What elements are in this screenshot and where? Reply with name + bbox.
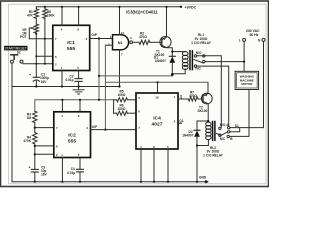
relay RL2 pole contact mid (228, 131, 230, 133)
wire IC4 pin1 Q to R7 (178, 98, 188, 100)
wire N terminal drop (263, 42, 265, 128)
transistor T2 base bar (202, 95, 204, 103)
switch S2 actuator (11, 55, 18, 59)
node rail pin1 (61, 181, 63, 183)
svg-text:100Ω: 100Ω (118, 107, 126, 111)
resistor R6 100K (43, 9, 47, 19)
svg-text:1M: 1M (27, 116, 32, 120)
node pin6 tap (35, 55, 37, 57)
wire D2 anode down (196, 137, 198, 182)
svg-text:S2: S2 (17, 50, 21, 54)
relay RL1 core bars (190, 51, 192, 70)
svg-text:1N4007: 1N4007 (182, 134, 193, 138)
node rail C3 (34, 181, 36, 183)
wire R2 to T1 base (150, 41, 162, 43)
svg-text:L: L (239, 38, 241, 42)
wire R7 to T2 base (198, 98, 203, 100)
wire R1 to VR (35, 18, 37, 24)
wire O/P junction drop (98, 39, 100, 100)
resistor R1 47K (34, 9, 38, 19)
node C3 pin2 (34, 153, 36, 155)
ground symbol under C2 (73, 90, 84, 94)
wire IC4 pin16 stub (157, 82, 159, 93)
node rail N1 pin14 (118, 6, 120, 8)
wire IC2 pin4 stub (61, 100, 63, 112)
wire IC1 pin8 stub (78, 7, 80, 26)
wire RL2 bottom pole to motor (229, 90, 249, 137)
node rail pin8 (78, 6, 80, 8)
switch S2 right contact circle (20, 60, 23, 63)
relay RL1 pole contact upper (203, 55, 205, 57)
wire IC4 bottom pin4 (140, 149, 142, 182)
transistor T1 collector lead (162, 45, 172, 51)
capacitor C3 10u top plate (31, 168, 38, 170)
terminal L circle (243, 38, 246, 41)
diode D2 1N4007 (194, 130, 200, 137)
wire IC1 pin5 stub to C2 (78, 71, 80, 79)
label START/RESET (4, 46, 28, 51)
node pin7 crossing (44, 38, 46, 40)
wire IC1 pin7 (29, 38, 53, 40)
svg-text:O/P: O/P (92, 125, 98, 129)
wire IC1 pin3 output (90, 38, 113, 40)
svg-text:POT: POT (20, 35, 27, 39)
svg-text:IC1: IC1 (67, 40, 75, 46)
relay RL2 armature (216, 132, 227, 136)
IC4 4027 box (136, 93, 178, 149)
wire C1 bottom (35, 81, 37, 86)
wire T1 collector node to RL1 coil top (172, 51, 185, 53)
node pin1 ground (61, 85, 63, 87)
node R4 pin6 (34, 145, 36, 147)
wire IC1 pin6 (36, 55, 53, 57)
node pin2 crossB (44, 63, 46, 65)
relay RL2 fixed N/C contact (219, 134, 221, 136)
wire IC2 pin6 (35, 145, 54, 147)
wire RL2 top pole U-link (230, 128, 240, 132)
resistor R6 100ohm (117, 111, 128, 115)
wire L terminal drop (243, 42, 245, 72)
svg-text:S1: S1 (235, 124, 239, 128)
wire N1 input2 drop to IC2 output (104, 45, 106, 129)
relay RL2 pole contact top (228, 127, 230, 129)
svg-text:MOTOR: MOTOR (241, 82, 253, 86)
svg-text:N/O A: N/O A (220, 123, 229, 127)
svg-text:N1: N1 (118, 41, 123, 45)
resistor R6 100K top stub (44, 7, 46, 9)
svg-text:100Ω: 100Ω (118, 93, 126, 97)
node rail IC4 p4 (140, 181, 142, 183)
svg-text:N/O: N/O (196, 51, 202, 55)
wire ground bus left (12, 86, 120, 88)
svg-text:1N4007: 1N4007 (155, 59, 166, 63)
svg-text:0.01µ: 0.01µ (67, 171, 75, 175)
wire left S2 column down to bottom rail (11, 63, 13, 182)
wire RL1 pole to L line (205, 61, 244, 63)
svg-text:IC3(N1)=CD4011: IC3(N1)=CD4011 (126, 10, 158, 15)
wire C1 column (35, 64, 37, 78)
potentiometer VR wiper arm (29, 28, 33, 39)
svg-text:START/RESET: START/RESET (4, 47, 26, 51)
label motor box (235, 71, 259, 89)
svg-text:+: + (29, 73, 31, 77)
node VR bottom (35, 33, 37, 35)
svg-text:470K: 470K (23, 139, 31, 143)
wire bottom ground rail (12, 181, 206, 183)
node rail R6 (44, 6, 46, 8)
node C2 ground (78, 85, 80, 87)
node busA left (98, 75, 100, 77)
node T1 collector (171, 51, 173, 53)
wire R1 top stub (35, 7, 37, 9)
wire RL1 N/C to RL2 pole (197, 66, 229, 126)
wire D1 anode down (171, 63, 173, 74)
capacitor C1 1000u top plate (33, 76, 39, 78)
svg-text:GND: GND (199, 176, 207, 180)
wire D1 cathode stub (171, 52, 173, 57)
relay RL2 pole contact bottom (227, 135, 229, 137)
relay RL2 core bars (213, 122, 215, 141)
node rail IC4 p8 (153, 181, 155, 183)
node rail IC4 p5 (167, 181, 169, 183)
inner border frame (9, 4, 267, 184)
node IC2 pin4 supply (61, 99, 63, 101)
capacitor C4 bottom plate (77, 171, 84, 173)
node N1 pin7 gnd (118, 85, 120, 87)
svg-text:IC2: IC2 (68, 133, 76, 139)
node rail C4 (79, 181, 81, 183)
relay RL1 coil (182, 52, 188, 70)
svg-text:+9VDC: +9VDC (185, 6, 197, 10)
wire R4 bottom column (34, 144, 36, 170)
wire IC1 pin2 (23, 63, 53, 65)
resistor R3 1M (33, 111, 37, 122)
relay RL1 fixed N/C contact (194, 65, 196, 67)
wire IC2 pin2 (35, 153, 54, 155)
wire C4 bottom (79, 172, 81, 182)
wire R3 to R4 (34, 123, 36, 133)
resistor R7 470ohm (188, 97, 198, 101)
svg-text:N/C: N/C (220, 137, 226, 141)
svg-text:14: 14 (121, 31, 125, 35)
svg-text:0.01µ: 0.01µ (65, 78, 73, 82)
svg-text:16V: 16V (41, 173, 48, 177)
svg-text:47K: 47K (27, 14, 34, 18)
wire IC1 pin4 stub (61, 7, 63, 26)
wire N1 input2 (105, 44, 112, 46)
transistor T1 SK100 circle (160, 36, 171, 47)
wire C2 bottom (78, 81, 80, 89)
svg-text:1 C/O RELAY: 1 C/O RELAY (203, 153, 224, 157)
relay RL2 fixed N/O contact (219, 127, 221, 129)
svg-text:1 C/O RELAY: 1 C/O RELAY (191, 41, 212, 45)
node D2 coil bottom (196, 144, 198, 146)
svg-text:IC4: IC4 (153, 116, 161, 122)
wire D2 top link (197, 121, 208, 130)
capacitor C2 top plate (75, 78, 82, 80)
node IC2 pin8 supply (79, 99, 81, 101)
svg-text:16: 16 (155, 95, 159, 99)
transistor T2 emitter lead (203, 83, 208, 96)
node pin16 bus (156, 81, 158, 83)
capacitor C1 bottom curved plate (33, 80, 39, 81)
wire RL1 coil bottom link (172, 69, 185, 74)
relay RL2 coil (206, 122, 211, 139)
svg-text:16V: 16V (41, 80, 48, 84)
node R3R4 pin7 (34, 127, 36, 129)
wire bus A to coil bottom node (99, 75, 172, 77)
resistor R2 470ohm (139, 40, 150, 44)
wire IC4 pin2 stub (178, 122, 182, 124)
svg-text:+: + (29, 165, 31, 169)
wire N1 output to R2 (133, 41, 139, 43)
svg-text:50 Hz: 50 Hz (250, 33, 259, 37)
node pin2 crossA (35, 63, 37, 65)
svg-text:Q1: Q1 (179, 119, 183, 123)
node rail pin4 (61, 6, 63, 8)
potentiometer VR 1M body (34, 24, 38, 33)
node rail T1 emitter (165, 6, 167, 8)
potentiometer VR wiper arrowhead (31, 27, 34, 29)
wire R6 to IC4 (114, 112, 117, 114)
wire IC2 pin7 (35, 127, 54, 129)
node rail D2 (196, 181, 198, 183)
node OP junction (98, 37, 100, 39)
node GND end (205, 181, 207, 183)
transistor T2 emitter arrow (204, 94, 207, 97)
node pole L junction (243, 61, 245, 63)
node T2 D2 tap (207, 120, 209, 122)
wire bus B supply (106, 82, 209, 93)
svg-text:100K: 100K (47, 14, 55, 18)
transistor T1 emitter lead (162, 7, 167, 40)
wire VR bottom column (35, 33, 37, 63)
svg-text:470Ω: 470Ω (189, 94, 197, 98)
capacitor C2 bottom plate (75, 80, 82, 82)
svg-text:555: 555 (68, 139, 76, 145)
svg-text:O/P: O/P (92, 33, 98, 37)
wire IC2 pin5 stub down (79, 158, 81, 170)
wire RL1 N/O to RL2 (197, 56, 222, 127)
switch S2 left contact circle (11, 60, 14, 63)
wire bus A rise (171, 74, 173, 76)
node IC2 supply left (98, 99, 100, 101)
relay RL1 armature (194, 60, 204, 64)
wire IC4 bottom pin5 (167, 149, 169, 182)
wire +9V top rail (36, 6, 181, 8)
wire 100K column down (44, 18, 46, 63)
IC1 555 box (53, 25, 90, 70)
node rail end +9VDC (180, 6, 182, 8)
wire R5 to IC4 (114, 99, 117, 101)
diode D1 1N4007 (169, 56, 175, 63)
transistor T2 SK100 circle (201, 93, 212, 104)
svg-text:470Ω: 470Ω (139, 35, 147, 39)
transistor T1 emitter arrow (163, 37, 166, 40)
wire IC2 pin8 stub (79, 100, 81, 112)
wire IC2 output pin3 (91, 129, 137, 131)
wire IC2 pin1 stub down (61, 158, 63, 182)
wire N1 pin14 supply stub (119, 7, 121, 35)
svg-text:555: 555 (67, 46, 75, 52)
terminal N circle (262, 38, 265, 41)
transistor T1 base bar (161, 38, 163, 46)
wire IC4 bottom pin8 (153, 149, 155, 182)
wire N1 pin7 stub down (119, 50, 121, 87)
relay RL1 pole contact lower (203, 60, 205, 62)
wire RL2 coil bottom link (197, 140, 208, 146)
svg-text:SK100: SK100 (198, 109, 208, 113)
outer border frame (1, 1, 269, 187)
node busA right (171, 73, 174, 76)
wire C3 bottom (34, 172, 36, 182)
relay RL1 fixed N/O contact (194, 55, 196, 57)
IC2 555 box (54, 112, 91, 158)
node IC2 output N1 (104, 129, 106, 131)
resistor R4 470K (33, 133, 37, 144)
wire IC2 supply bus (35, 100, 114, 111)
wire RL2 link to N (240, 127, 264, 129)
ground arrow at rail end (206, 180, 209, 184)
svg-text:N/C: N/C (195, 67, 201, 71)
NAND gate N1 output bubble (130, 41, 133, 44)
transistor T2 collector lead (203, 101, 208, 122)
wire IC1 pin1 stub down (61, 71, 63, 87)
capacitor C3 bottom plate (31, 171, 38, 173)
node C1 ground (35, 85, 37, 87)
wire R5 R6 common column (113, 100, 115, 113)
resistor R5 100ohm (117, 98, 128, 102)
svg-text:4027: 4027 (152, 122, 163, 128)
capacitor C4 top plate (77, 168, 84, 170)
NAND gate N1 body (113, 35, 129, 50)
